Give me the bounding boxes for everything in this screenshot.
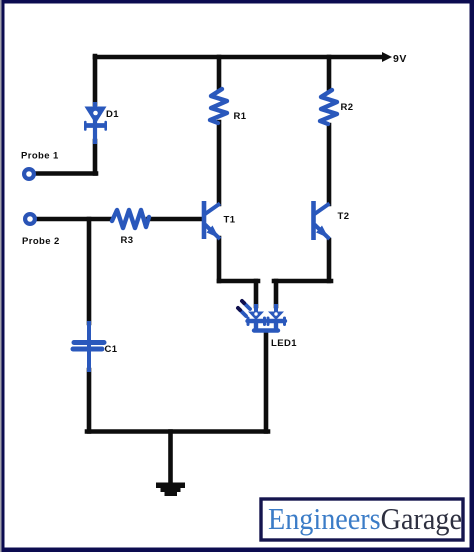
LED LED1 — [238, 301, 285, 331]
resistor R1 — [210, 89, 227, 123]
wire D1 bottom lead — [95, 141, 96, 174]
wire probe1 to D1 corner — [34, 171, 95, 176]
svg-text:9V: 9V — [393, 53, 407, 65]
svg-text:Probe 1: Probe 1 — [21, 151, 59, 162]
wire R2 to T2 collector — [327, 125, 332, 204]
probe terminal Probe 1 — [24, 169, 34, 179]
transistor T1 — [204, 201, 220, 239]
wire LED cathode to bottom rail — [264, 331, 269, 432]
node 9V arrowhead — [382, 52, 392, 62]
logo EngineersGarage — [261, 499, 463, 540]
wire T2 leg to LED right — [274, 279, 331, 284]
svg-text:T1: T1 — [224, 215, 236, 226]
wire junction down to C1 — [87, 219, 92, 323]
wire bottom rail — [87, 429, 268, 434]
svg-text:R3: R3 — [121, 235, 134, 246]
ground — [156, 483, 185, 497]
wire ground stem — [168, 432, 173, 485]
wire T1 emitter down — [217, 238, 222, 281]
wire LED left top lead — [254, 281, 259, 306]
wire R1 to T1 collector — [217, 122, 222, 204]
diode D1 — [85, 102, 107, 144]
svg-text:LED1: LED1 — [271, 338, 297, 349]
svg-text:R2: R2 — [341, 102, 354, 113]
resistor R2 — [320, 90, 337, 124]
wire probe2 to R3 — [36, 217, 112, 222]
svg-text:D1: D1 — [106, 109, 119, 120]
wire D1 top lead — [93, 56, 98, 104]
wire rail to R2 — [327, 57, 332, 89]
wire C1 to bottom rail — [87, 370, 92, 432]
svg-text:EngineersGarage: EngineersGarage — [268, 501, 462, 536]
svg-text:C1: C1 — [105, 344, 118, 355]
capacitor C1 — [73, 321, 104, 372]
wire T2 emitter down — [327, 240, 332, 281]
wire 9V rail — [95, 55, 383, 60]
svg-text:R1: R1 — [234, 111, 247, 122]
resistor R3 — [112, 210, 149, 228]
wire rail to R1 — [217, 57, 222, 88]
svg-text:T2: T2 — [338, 211, 350, 222]
wire LED right top lead — [274, 281, 279, 306]
svg-text:Probe 2: Probe 2 — [22, 236, 60, 247]
wire R3 to T1 base — [148, 217, 203, 222]
wire T1 leg to LED left — [219, 279, 258, 284]
transistor T2 — [314, 201, 330, 240]
probe terminal Probe 2 — [25, 214, 35, 224]
